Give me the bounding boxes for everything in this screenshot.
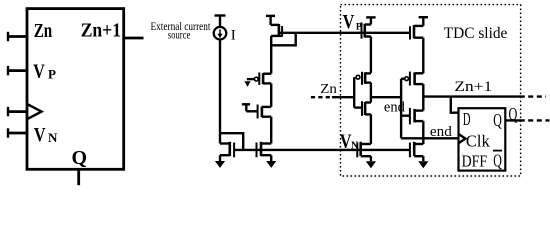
svg-text:Q: Q <box>509 104 518 124</box>
svg-text:P: P <box>48 67 56 82</box>
transistor M2 (PMOS, bubbled gate) <box>247 78 256 80</box>
transistor VN1 (tail NMOS left) <box>356 143 358 158</box>
wire M1 gate tie <box>271 35 282 37</box>
svg-text:Zn+1: Zn+1 <box>454 79 492 95</box>
transistor MN2 (inverter2 NMOS) <box>401 114 410 116</box>
pin stub Q (bottom) <box>77 169 80 185</box>
transistor M3 (cascode, T-stub gate) <box>242 103 250 105</box>
supply bar (M1) <box>266 15 275 17</box>
svg-text:Zn: Zn <box>320 82 337 97</box>
pin stub Zn+1 (right) <box>124 37 144 40</box>
transistor P2 (current-starve PMOS, right) <box>414 25 423 27</box>
wire inverter2 output rail <box>422 84 424 111</box>
wire end (inv1 out to inv2 in) <box>371 96 401 98</box>
wire inverter1 gate rail <box>353 77 355 107</box>
svg-text:Q: Q <box>493 150 502 170</box>
svg-text:Zn+1: Zn+1 <box>81 20 121 42</box>
transistor M5 (mirror NMOS output) <box>256 143 258 158</box>
svg-text:D: D <box>463 109 471 129</box>
wire Zn+1 to D <box>451 97 459 113</box>
pin stub CLK (left) <box>8 110 27 113</box>
wire end to DFF clk <box>401 137 458 139</box>
supply bar (current source) <box>215 14 226 16</box>
wire MN2 source down <box>422 121 424 144</box>
wire inverter1 output rail <box>370 83 372 103</box>
wire Zn dotted lead-in <box>311 96 332 98</box>
wire M3 drain down <box>270 117 272 144</box>
ground (VN2) <box>422 156 424 161</box>
svg-text:Q: Q <box>493 110 502 130</box>
svg-text:Q: Q <box>72 147 88 169</box>
transistor M1 (diode-connected PMOS) <box>271 24 279 26</box>
transistor P1 (current-starve PMOS, left) <box>365 23 371 25</box>
wire VP bias line <box>279 32 411 34</box>
svg-text:Clk: Clk <box>466 131 490 150</box>
ground (M5) <box>270 155 272 161</box>
transistor MP2 (inverter2 PMOS) <box>401 77 405 79</box>
current source I1 (circle with down arrow) <box>214 27 227 40</box>
svg-text:end: end <box>430 124 452 140</box>
wire M1 gate to M2 source <box>270 36 272 74</box>
svg-text:V: V <box>33 60 45 82</box>
wire inverter2 gate rail <box>400 79 402 139</box>
pin stub VP (left) <box>8 69 27 72</box>
pin stub Zn (left) <box>8 35 27 38</box>
svg-text:Zn: Zn <box>34 20 53 42</box>
ground (VN1) <box>370 156 372 161</box>
svg-text:V: V <box>343 11 355 33</box>
flip-flop U1 (DFF box) <box>459 108 506 170</box>
wire VN bias line <box>234 149 410 151</box>
wire current source down <box>219 40 221 144</box>
svg-text:N: N <box>48 130 58 145</box>
clock wedge of U0 <box>27 104 42 119</box>
wire Zn input <box>332 96 354 98</box>
transistor M4 (mirror NMOS, diode) <box>220 142 230 144</box>
wire M1 drain drop <box>271 33 296 46</box>
supply bar (P1) <box>366 16 375 18</box>
transistor MN1 (inverter1 NMOS) <box>354 106 362 108</box>
svg-text:TDC slide: TDC slide <box>444 25 508 42</box>
slice block U0 (left symbol box) <box>27 9 124 170</box>
wire MN1 source down <box>370 114 372 144</box>
transistor VN2 (tail NMOS right) <box>409 143 411 158</box>
clock wedge of U1 <box>459 134 466 143</box>
transistor MP1 (inverter1 PMOS) <box>356 75 360 79</box>
wire Zn+1 output <box>423 95 525 97</box>
wire diode tap of M4 <box>220 133 243 150</box>
ground (M4) <box>219 155 221 161</box>
svg-text:V: V <box>34 124 46 146</box>
wire M2 drain down <box>270 83 272 107</box>
svg-text:DFF: DFF <box>462 151 488 170</box>
svg-text:I: I <box>231 27 236 43</box>
pin stub VN (left) <box>8 132 27 135</box>
supply bar (P2) <box>419 16 428 18</box>
TDC slide dashed box <box>341 5 521 176</box>
wire Q output <box>505 119 525 121</box>
svg-text:source: source <box>168 30 191 42</box>
